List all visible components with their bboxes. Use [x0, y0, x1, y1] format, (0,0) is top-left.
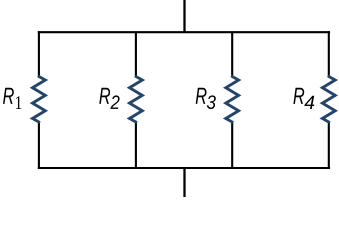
wire branch 3 leads: [231, 32, 233, 168]
resistor R2: [130, 77, 143, 123]
resistor R1: [33, 77, 46, 123]
label R1: [3, 88, 21, 109]
wire branch 4 leads: [328, 31, 330, 169]
resistor R3: [226, 77, 239, 123]
bottom terminal wire: [183, 167, 185, 197]
wire top rail: [38, 31, 330, 33]
label R4: [293, 88, 314, 109]
wire branch 1 leads: [38, 31, 40, 169]
top terminal wire: [183, 0, 185, 33]
wire branch 2 leads: [135, 32, 137, 168]
resistor R4: [322, 77, 335, 123]
label R3: [196, 88, 216, 109]
wire bottom rail: [38, 167, 330, 169]
label R2: [99, 88, 119, 109]
